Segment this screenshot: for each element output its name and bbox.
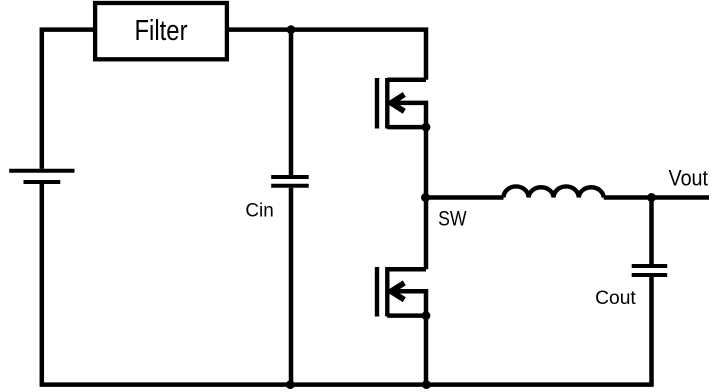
wire top rail battery-to-filter: [42, 30, 93, 169]
svg-text:Filter: Filter: [134, 14, 187, 46]
transistor Q1 high-side MOSFET: [377, 78, 426, 129]
wire inductor-to-vout: [604, 195, 652, 200]
junction fet-ground: [422, 380, 431, 389]
svg-text:Cout: Cout: [595, 287, 636, 309]
wire cin top: [289, 30, 294, 175]
wire bottom rail: [40, 382, 654, 387]
wire sw-to-inductor: [426, 195, 504, 200]
junction cin-ground: [286, 380, 295, 389]
wire top rail filter-to-node: [229, 27, 291, 32]
wire cout-to-ground: [649, 277, 654, 385]
junction q1-source: [422, 123, 431, 132]
svg-text:SW: SW: [438, 207, 467, 231]
svg-text:Vout: Vout: [669, 166, 709, 191]
wire top rail node-to-fet: [291, 30, 426, 80]
wire battery-to-ground: [40, 184, 45, 385]
node SW junction: [421, 193, 430, 202]
node Vout junction: [647, 193, 656, 202]
capacitor Cout: [632, 266, 668, 275]
junction top node: [287, 25, 296, 34]
wire vout-to-cout: [649, 198, 654, 265]
capacitor Cin: [271, 177, 309, 186]
battery BT1: [9, 171, 74, 182]
wire vout-right: [652, 195, 710, 200]
inductor L1: [504, 186, 604, 197]
wire cin bottom: [289, 188, 294, 385]
wire q1-to-sw: [424, 127, 429, 197]
wire sw-to-q2: [424, 198, 429, 270]
junction q2-source: [422, 311, 431, 320]
transistor Q2 low-side MOSFET: [377, 267, 426, 317]
wire q2-to-ground: [424, 316, 429, 385]
filter block U1: [95, 3, 227, 59]
svg-text:Cin: Cin: [245, 200, 273, 222]
